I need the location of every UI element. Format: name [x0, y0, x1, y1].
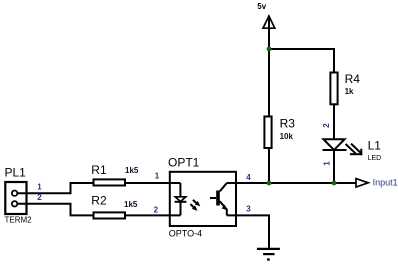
- svg-text:1: 1: [322, 161, 331, 166]
- svg-text:1k5: 1k5: [125, 166, 139, 175]
- svg-text:10k: 10k: [280, 132, 294, 141]
- svg-text:2: 2: [322, 123, 331, 128]
- svg-text:2: 2: [154, 206, 159, 215]
- svg-text:PL1: PL1: [5, 166, 27, 180]
- svg-text:OPTO-4: OPTO-4: [169, 228, 202, 238]
- svg-text:1: 1: [155, 172, 160, 181]
- svg-text:TERM2: TERM2: [5, 215, 33, 224]
- svg-text:5v: 5v: [257, 2, 266, 11]
- svg-text:OPT1: OPT1: [168, 156, 200, 170]
- svg-text:Input1: Input1: [373, 178, 398, 188]
- svg-text:2: 2: [37, 193, 42, 202]
- svg-text:4: 4: [246, 173, 251, 182]
- svg-text:1k5: 1k5: [124, 200, 138, 209]
- svg-text:3: 3: [246, 204, 251, 213]
- svg-text:L1: L1: [368, 139, 382, 153]
- svg-text:R3: R3: [280, 117, 296, 131]
- svg-text:LED: LED: [368, 155, 382, 162]
- svg-text:1: 1: [37, 182, 42, 191]
- svg-text:1k: 1k: [345, 87, 354, 96]
- svg-text:R2: R2: [91, 194, 107, 208]
- svg-text:R4: R4: [345, 72, 361, 86]
- svg-text:R1: R1: [91, 163, 107, 177]
